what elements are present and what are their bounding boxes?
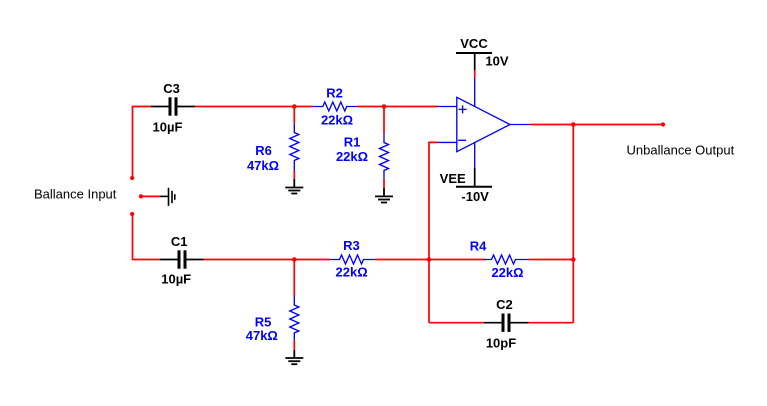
svg-text:VEE: VEE [440,171,466,186]
wire: input- terminal down and to C1 [133,214,161,260]
wire: R6 to ground [293,171,295,180]
svg-text:47kΩ: 47kΩ [246,328,278,343]
svg-text:10µF: 10µF [153,119,183,134]
wire: input+ terminal vertical and top segment to C3 [133,107,152,179]
node: input common terminal dot [139,194,143,198]
svg-text:47kΩ: 47kΩ [247,158,279,173]
capacitor C2 [484,297,529,351]
resistor R4 [470,238,529,280]
wire: R3 to node E [375,259,486,261]
ground: input common (rotated) [160,188,175,206]
node: output open terminal dot [661,122,665,126]
resistor R5 [246,296,299,343]
ground: under R6 [285,179,303,194]
capacitor C3 [151,81,195,134]
svg-text:R6: R6 [255,143,272,158]
wire: node E down to C2 left [428,260,430,323]
wire: C3 to node A [195,106,313,108]
wire: R5 to ground [293,341,295,351]
resistor R6 [247,124,299,173]
svg-text:Ballance Input: Ballance Input [34,187,117,202]
node: input- open terminal dot [130,212,134,216]
svg-text:22kΩ: 22kΩ [491,265,523,280]
svg-text:10V: 10V [485,54,508,69]
wire: feedback from node E up to op-amp - input [429,142,438,259]
svg-text:10pF: 10pF [486,335,516,350]
node F: junction dot right [571,257,576,262]
node D: junction dot at R5 top [292,257,297,262]
svg-text:R2: R2 [326,85,343,100]
wire: R1 to ground [383,179,385,188]
wire: node A down to R6 [293,107,295,124]
node C: output junction dot [571,122,576,127]
svg-text:22kΩ: 22kΩ [336,149,368,164]
svg-text:R1: R1 [344,135,361,150]
power symbol VCC [456,36,509,70]
op-amp U1 positive power pin [474,78,476,107]
ground: under R1 [375,188,393,203]
svg-text:C1: C1 [171,234,188,249]
svg-text:-10V: -10V [461,189,489,204]
wire: node D down to R5 [293,260,295,297]
svg-text:22kΩ: 22kΩ [336,265,368,280]
op-amp U1 negative power pin [474,142,476,168]
wire: R4 to node F [529,259,574,261]
svg-text:10µF: 10µF [161,272,191,287]
svg-text:C2: C2 [496,297,513,312]
power symbol VEE [440,168,492,204]
op-amp U1 [438,70,530,168]
wire: R2 to op-amp + input [357,106,438,108]
resistor R3 [330,238,375,279]
svg-text:R4: R4 [470,238,487,253]
svg-text:VCC: VCC [460,36,488,51]
wire: common terminal to ground [142,195,160,197]
wire: C2 right horizontal [529,322,574,324]
svg-text:R3: R3 [343,238,360,253]
node B: junction dot at R1 top [382,104,387,109]
wire: C2 left horizontal [429,322,484,324]
wire: node F down to C2 right [572,260,574,323]
svg-text:Unballance Output: Unballance Output [627,143,735,158]
resistor R2 [313,85,357,127]
resistor R1 [336,134,389,179]
svg-text:22kΩ: 22kΩ [321,112,353,127]
node A: junction dot at R6 top [292,104,297,109]
wire: node B down to R1 [383,107,385,134]
capacitor C1 [160,234,204,286]
node E: junction dot feedback [427,257,432,262]
svg-text:C3: C3 [163,81,180,96]
node: input+ open terminal dot [130,176,134,180]
wire: op-amp output to terminal [530,124,663,126]
wire: C1 to node D [204,259,331,261]
wire: output junction down to node F [572,125,574,260]
ground: under R5 [285,350,303,364]
